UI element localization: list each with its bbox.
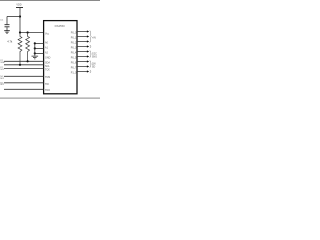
capacitor C1 lead [6,17,8,25]
wire P0_6 out [77,61,87,63]
svg-text:Vcc: Vcc [45,32,50,35]
label +IN [92,37,96,40]
svg-text:P0_4: P0_4 [71,51,77,54]
wire TDI [4,82,44,84]
arrow P0_1 [87,35,89,37]
pin label P0_6 [71,61,77,64]
pin label A0 [45,41,49,44]
wire A0 stub [35,42,44,44]
wire A2 stub [35,52,44,54]
svg-text:0.1: 0.1 [0,20,4,22]
capacitor C1 lower lead [6,27,8,30]
svg-text:P0_1: P0_1 [71,36,77,39]
wire SCL [4,64,44,66]
svg-text:MCl: MCl [0,84,4,86]
svg-text:+IN: +IN [92,37,96,40]
power VDD bar [16,7,23,9]
label TDI left line1 [0,82,3,84]
svg-text:QN: QN [92,63,96,66]
wire P0_7 out [77,66,87,68]
pin label P0_7 [71,66,77,69]
capacitor C1 plates [5,25,10,27]
IC U1 part number DS4550 [55,24,66,28]
svg-text:SCL: SCL [45,65,50,68]
svg-text:P1_0: P1_0 [71,71,77,74]
svg-text:SCL: SCL [0,69,5,71]
svg-text:A2: A2 [45,52,49,55]
frame top rule [0,0,100,1]
pin label TCK [45,68,50,71]
svg-text:4.7k: 4.7k [7,39,13,43]
wire P0_1 out [77,36,87,38]
wire P0_5 out [77,56,87,58]
resistor R2 4.7k [26,33,30,62]
svg-text:NC: NC [0,76,3,78]
label SDA left line2 [0,61,5,64]
svg-text:P0_5: P0_5 [71,56,77,59]
pin label Vcc [45,32,50,35]
svg-text:P0_7: P0_7 [71,66,77,69]
pin label TMS [45,76,50,79]
label SDA left line1 [0,60,3,62]
svg-text:PC: PC [0,60,3,62]
capacitor C1 value 0.1uF [0,20,4,22]
pin label TDO [45,89,50,92]
arrow P0_7 [87,65,89,67]
arrow P0_4 [87,50,89,52]
wire to capacitor [7,16,20,18]
svg-text:A0: A0 [45,41,49,44]
arrow P0_2 [87,40,89,42]
wire P0_3 out [77,46,87,48]
svg-text:A1: A1 [45,46,49,49]
frame bottom rule [0,98,100,99]
arrow P0_3 [87,45,89,47]
wire Vcc rail [20,32,44,34]
wire TDO [4,88,44,90]
svg-text:P0_2: P0_2 [71,41,77,44]
pin label P0_5 [71,56,77,59]
wire P0_2 out [77,41,87,43]
brace P1_0 [90,70,91,73]
svg-text:TDI: TDI [45,83,49,86]
label QN line1 [92,63,96,66]
pin label P0_3 [71,46,77,49]
pin label SDA [45,61,50,64]
brace group IN [90,31,92,43]
pin label P0_2 [71,41,77,44]
wire P1_0 out [77,71,87,73]
pin label P0_0 [71,31,77,34]
ground under C1 [4,31,10,34]
pin label A1 [45,46,49,49]
wire TCK [4,68,44,70]
svg-text:P0_3: P0_3 [71,46,77,49]
label SD line2 [92,66,96,69]
pin label A2 [45,52,49,55]
wire address bus down [34,43,36,55]
arrow P0_5 [87,55,89,57]
pin label P0_4 [71,51,77,54]
label TDI left line2 [0,84,4,86]
wire P0_4 out [77,51,87,53]
pin label P0_1 [71,36,77,39]
svg-text:TMS: TMS [45,76,50,79]
svg-text:GND: GND [45,57,51,60]
svg-text:DS4550: DS4550 [55,24,66,28]
svg-text:TDO: TDO [45,89,50,92]
resistor R1 4.7k [18,33,22,65]
svg-text:TCK: TCK [45,68,50,71]
label TMS left line1 [0,76,3,78]
label TMS left line2 [0,78,4,80]
label SNS line2 [92,56,97,59]
wire A1 stub [35,47,44,49]
svg-text:NC: NC [0,82,3,84]
svg-text:MCl: MCl [0,78,4,80]
node A1 [34,47,36,49]
power VDD label [16,4,21,7]
node SDA/R2 [27,60,29,62]
IC U1 body [44,21,77,94]
pin label SCL [45,65,50,68]
node rail/R1 [19,31,21,33]
ground under address bus [32,56,39,59]
pin label TDI [45,83,49,86]
node junction VDD/C1 [19,15,21,17]
node rail/R2 [27,31,29,33]
svg-text:SDA: SDA [45,61,50,64]
wire TMS [4,75,44,77]
svg-text:VDD: VDD [16,4,21,7]
label SCL left line2 [0,69,5,71]
brace group G2 [90,51,92,58]
label SCL left line1 [0,67,3,69]
wire VDD down [19,8,21,33]
node A2 [34,52,36,54]
wire SDA [4,60,44,62]
node A0 [34,42,36,44]
arrow P0_0 [87,30,89,32]
svg-text:SNS: SNS [92,56,97,59]
svg-text:PC: PC [0,67,3,69]
label G2C line1 [92,53,97,56]
svg-text:G2C: G2C [92,53,97,56]
arrow P0_6 [87,60,89,62]
label 4.7k [7,39,13,43]
pin label GND [45,57,51,60]
brace group QN [90,61,92,68]
brace P0_3 [90,45,91,48]
arrow P1_0 [87,70,89,72]
wire P0_0 out [77,31,87,33]
pin label P1_0 [71,71,77,74]
svg-text:SD: SD [92,66,96,69]
svg-text:P0_6: P0_6 [71,61,77,64]
node SCL/R1 [19,64,21,66]
svg-text:P0_0: P0_0 [71,31,77,34]
